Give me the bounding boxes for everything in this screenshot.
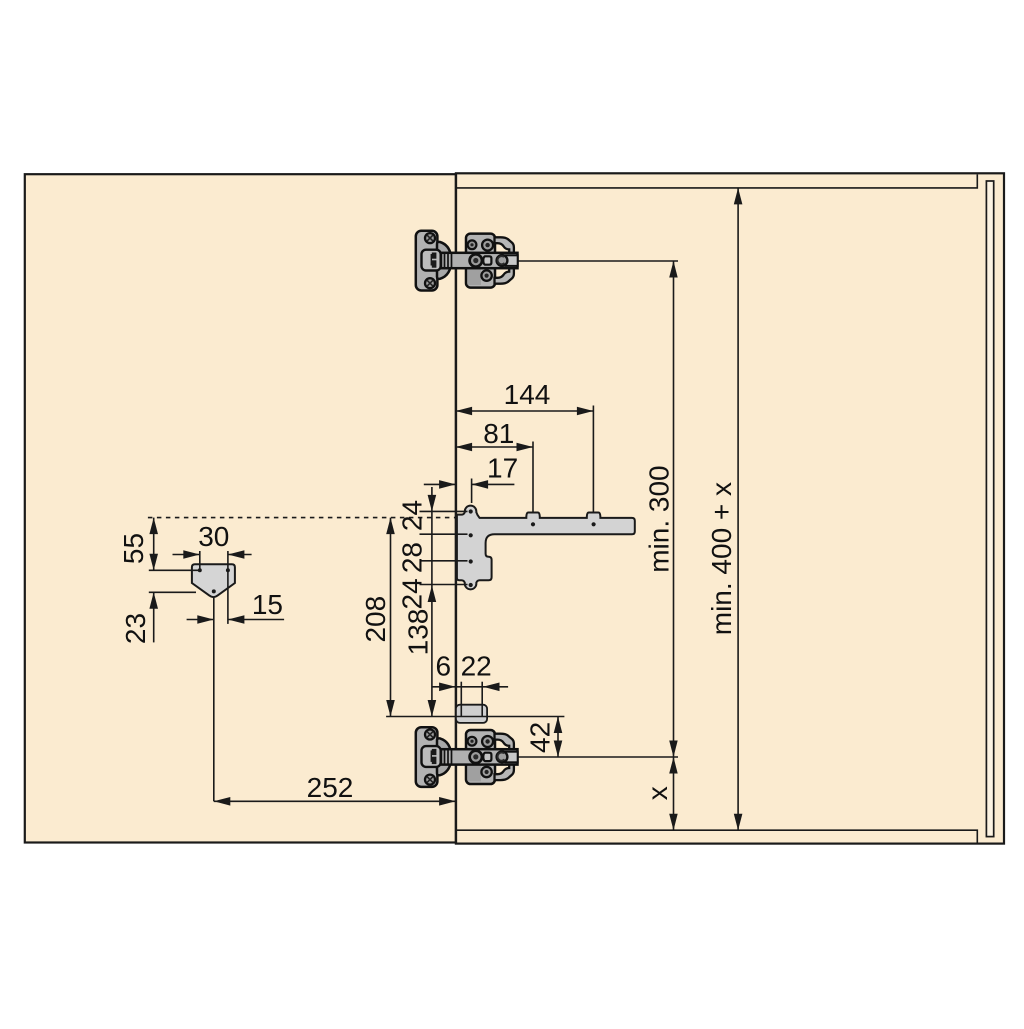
emuca logo squiggle	[431, 253, 437, 268]
svg-text:42: 42	[525, 722, 556, 753]
dim 17	[424, 453, 518, 504]
catch piece	[456, 705, 487, 723]
plate screw bottom	[481, 270, 491, 280]
cabinet bottom inner line	[457, 830, 977, 842]
top hinge axis line	[516, 260, 678, 262]
svg-text:28: 28	[397, 542, 428, 573]
dim 144	[456, 379, 594, 523]
mounting bracket (gray cross-section)	[457, 506, 635, 590]
cam square	[483, 256, 491, 264]
stack dim line 24/28/24 + 138	[397, 487, 468, 717]
shield hole dots	[198, 568, 230, 593]
dim min. 400 + x	[706, 188, 742, 830]
dim 42	[525, 717, 563, 758]
svg-text:6: 6	[436, 651, 452, 682]
shield center extension line	[213, 598, 215, 802]
dim 15	[187, 589, 285, 624]
hinge cup bulge	[437, 242, 451, 279]
dim min. 300	[642, 261, 678, 830]
svg-text:x: x	[642, 786, 673, 800]
dim 252	[214, 772, 456, 806]
svg-text:15: 15	[252, 589, 283, 620]
svg-text:55: 55	[118, 533, 149, 564]
svg-text:138: 138	[403, 609, 434, 656]
cabinet back groove	[986, 181, 993, 837]
dim 81	[456, 418, 533, 523]
svg-text:min. 300: min. 300	[644, 465, 675, 572]
hinge arm	[441, 253, 518, 268]
plate screw top-right	[482, 240, 493, 251]
door cover cap (shield piece)	[192, 564, 235, 597]
cup screw top	[425, 233, 435, 243]
door panel	[25, 174, 456, 842]
hinge (top)	[416, 231, 518, 291]
dim 6 / 22	[432, 651, 508, 717]
svg-text:24: 24	[397, 500, 428, 531]
bottom hinge axis line	[516, 756, 678, 758]
dim 30	[173, 521, 252, 624]
cabinet top inner line	[457, 175, 977, 188]
svg-text:17: 17	[487, 453, 518, 484]
svg-text:min. 400 + x: min. 400 + x	[706, 482, 737, 635]
svg-text:30: 30	[198, 521, 229, 552]
svg-text:208: 208	[360, 596, 391, 643]
hinge cup inner body	[422, 250, 441, 271]
arm end cap	[506, 255, 518, 266]
dashed reference line	[148, 517, 456, 519]
hinge (bottom)	[416, 727, 518, 787]
svg-text:24: 24	[397, 578, 428, 609]
mounting plate body	[466, 234, 495, 288]
bottom reference line	[386, 716, 564, 718]
door/cabinet edge line	[455, 173, 457, 843]
svg-text:81: 81	[483, 418, 514, 449]
central boss screw	[470, 254, 482, 266]
svg-text:22: 22	[461, 651, 492, 682]
cup screw bottom	[425, 278, 435, 288]
dim 208	[360, 518, 395, 717]
bracket hole dots	[469, 509, 596, 587]
svg-text:252: 252	[307, 772, 354, 803]
cabinet panel	[456, 173, 1004, 843]
plate screw small top-left	[468, 240, 477, 249]
dim 23	[120, 592, 196, 644]
right adjuster screw	[497, 255, 508, 266]
svg-text:23: 23	[120, 613, 151, 644]
mounting plate wing	[495, 237, 514, 283]
hinge cup plate on door	[416, 231, 438, 291]
dim 55	[118, 518, 201, 571]
svg-text:144: 144	[504, 379, 551, 410]
